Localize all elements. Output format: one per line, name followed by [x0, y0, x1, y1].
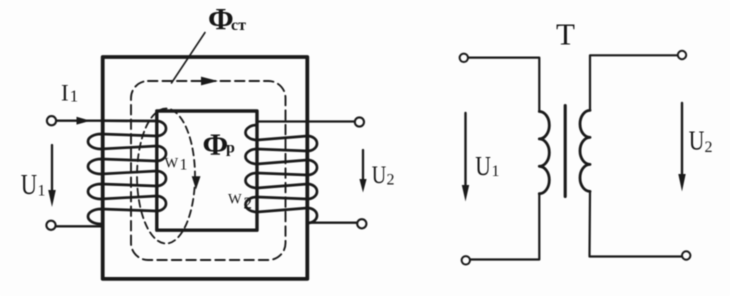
svg-text:U: U [689, 126, 705, 156]
svg-text:U: U [475, 152, 491, 182]
svg-text:1: 1 [38, 182, 46, 199]
svg-text:U: U [21, 168, 38, 200]
svg-text:W: W [228, 191, 242, 207]
svg-text:1: 1 [492, 163, 500, 180]
svg-text:U: U [372, 161, 386, 189]
svg-text:р: р [226, 140, 235, 157]
svg-text:I: I [61, 81, 69, 106]
svg-text:1: 1 [70, 87, 79, 106]
svg-text:2: 2 [705, 139, 713, 156]
svg-text:ст: ст [231, 17, 246, 34]
svg-text:W: W [165, 156, 179, 172]
svg-text:1: 1 [180, 156, 188, 173]
svg-text:2: 2 [387, 172, 395, 189]
svg-text:2: 2 [244, 194, 253, 213]
svg-text:Φ: Φ [203, 127, 229, 162]
svg-text:Φ: Φ [208, 1, 234, 36]
svg-text:T: T [556, 17, 575, 52]
